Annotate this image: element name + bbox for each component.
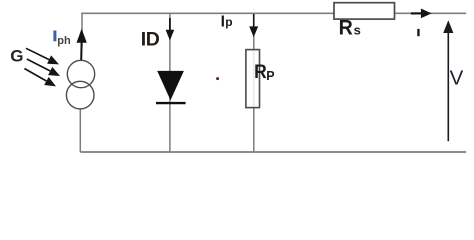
label Rs	[339, 16, 361, 40]
diode D1 cathode bar	[156, 102, 186, 104]
wire left branch upper segment	[81, 13, 82, 61]
label Ip	[221, 13, 233, 30]
svg-text:p: p	[225, 15, 232, 29]
current source circle upper	[67, 60, 94, 87]
irradiance arrow 1	[26, 48, 59, 64]
wire bottom rail	[80, 151, 466, 153]
svg-text:ph: ph	[57, 35, 71, 47]
svg-text:s: s	[354, 22, 361, 37]
diode D1 triangle	[157, 71, 184, 100]
wire diode branch	[169, 13, 171, 152]
stray dot	[216, 77, 219, 80]
current source Iph arrow	[77, 29, 87, 61]
irradiance arrow 3	[24, 69, 56, 87]
resistor Rp body	[246, 50, 260, 108]
diode ID current arrow	[166, 18, 175, 41]
wire top rail	[81, 12, 466, 14]
output current I arrow	[411, 9, 432, 19]
irradiance arrow 2	[27, 59, 60, 76]
svg-text:I: I	[221, 13, 225, 30]
svg-text:R: R	[339, 16, 354, 40]
voltage V arrow	[443, 20, 453, 141]
svg-text:R: R	[254, 61, 267, 83]
label Iph	[53, 31, 71, 47]
svg-text:V: V	[450, 66, 464, 89]
svg-text:G: G	[10, 47, 23, 66]
label Rp	[254, 61, 275, 83]
wire Rp branch	[253, 13, 255, 152]
Ip current arrow	[249, 14, 258, 37]
label I	[417, 29, 419, 36]
current source circle lower	[66, 81, 94, 109]
svg-text:ID: ID	[141, 28, 160, 50]
resistor Rs body	[334, 3, 395, 19]
svg-text:P: P	[266, 69, 274, 83]
wire left branch lower segment	[79, 109, 81, 152]
